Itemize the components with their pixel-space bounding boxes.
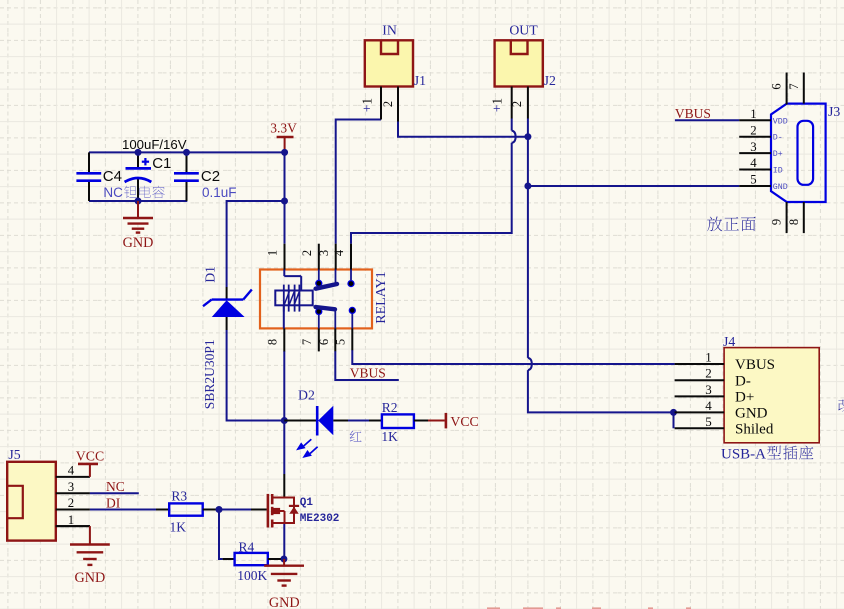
- svg-text:3: 3: [705, 382, 712, 397]
- value 100K of R4: [237, 568, 267, 583]
- connector J5: [7, 462, 56, 541]
- pin name GND of J3: [773, 183, 788, 192]
- connector J1: [365, 40, 413, 86]
- pin label 4 of J3: [750, 156, 757, 170]
- wire GND net to J4: [528, 370, 674, 412]
- designator Q1: [300, 497, 314, 509]
- svg-text:1: 1: [750, 107, 756, 121]
- svg-text:3: 3: [68, 480, 74, 494]
- pin 7 of relay: [318, 328, 320, 351]
- pin label 2 of J5: [68, 496, 74, 510]
- svg-text:D2: D2: [298, 387, 315, 402]
- svg-text:J2: J2: [544, 73, 556, 88]
- pin 8 of relay: [283, 328, 285, 351]
- junction D1 top on 3.3V net: [281, 198, 288, 205]
- pin 3 of J3: [739, 152, 771, 154]
- designator R2: [382, 400, 398, 415]
- junction GND J3 branch: [524, 183, 531, 190]
- wire 3.3V net vertical to relay pin1: [284, 151, 286, 243]
- svg-text:NC: NC: [103, 185, 123, 200]
- svg-text:SBR2U30P1: SBR2U30P1: [202, 339, 217, 409]
- svg-text:R3: R3: [171, 488, 187, 503]
- svg-text:6: 6: [317, 339, 331, 345]
- pin label 4 of relay: [332, 249, 346, 256]
- relay RELAY1 box: [260, 270, 372, 329]
- svg-text:1: 1: [68, 513, 74, 527]
- relay contact upper: [316, 270, 354, 289]
- designator R3: [171, 488, 187, 503]
- svg-text:3.3V: 3.3V: [270, 121, 297, 136]
- pin label 5 of J4: [705, 414, 712, 429]
- power symbol 3.3V: [277, 137, 294, 152]
- pin 4 of J3: [739, 169, 771, 171]
- svg-text:2: 2: [381, 101, 395, 107]
- svg-text:1: 1: [705, 350, 712, 365]
- label C4: [103, 168, 122, 185]
- pin 5 of relay: [351, 328, 353, 350]
- svg-text:VDD: VDD: [773, 117, 788, 126]
- svg-text:4: 4: [750, 156, 757, 170]
- svg-text:ME2302: ME2302: [300, 513, 340, 525]
- pin label 5 of relay: [334, 339, 348, 345]
- junction R3-R4-gate: [216, 506, 223, 513]
- LED D2: [298, 406, 333, 457]
- wire DI to R3: [90, 509, 169, 511]
- junction R4 to source: [280, 556, 287, 563]
- connector J4: [724, 348, 819, 443]
- label OUT: [509, 23, 538, 38]
- net label VCC at J5: [76, 449, 104, 464]
- value 1K of R3: [170, 519, 187, 534]
- wire 3.3V top rail: [89, 151, 285, 153]
- pin 6 of relay: [334, 328, 336, 351]
- connector J2: [495, 40, 543, 86]
- junction 3.3V: [281, 149, 288, 156]
- svg-text:8: 8: [787, 219, 801, 225]
- wire D1 top to 3.3V net: [227, 200, 285, 202]
- pin 5 of J3: [739, 185, 771, 187]
- svg-text:8: 8: [266, 339, 280, 345]
- wire J1 pin2 to J2 pin2: [398, 122, 528, 137]
- pin 6 of J3: [786, 73, 788, 105]
- pin name D- of J3: [773, 134, 783, 143]
- relay contact lower: [316, 307, 356, 328]
- pin 1 of J4: [675, 363, 725, 365]
- pin label +1 of J2: [490, 98, 505, 112]
- pin 7 of J3: [803, 73, 805, 104]
- label 放正面: [707, 217, 755, 232]
- pin label 4 of J4: [705, 398, 712, 413]
- pin label 2 of J1: [381, 101, 395, 107]
- svg-text:C2: C2: [201, 168, 220, 185]
- pin 2 of J5: [56, 509, 90, 511]
- svg-text:ID: ID: [773, 167, 783, 176]
- svg-text:D+: D+: [735, 390, 754, 406]
- label 红: [350, 431, 362, 442]
- svg-text:4: 4: [332, 249, 346, 256]
- relay coil: [275, 270, 312, 329]
- wire R4 branch: [219, 510, 223, 560]
- svg-text:+1: +1: [359, 98, 374, 112]
- svg-text:Shiled: Shiled: [735, 422, 774, 438]
- svg-text:1K: 1K: [170, 519, 187, 534]
- capacitor C1 (polar): [125, 152, 152, 201]
- svg-text:6: 6: [770, 83, 784, 89]
- junction C1 bottom: [135, 198, 142, 205]
- pin label 3 of J5: [68, 480, 74, 494]
- designator J4: [723, 334, 735, 349]
- pin 4 of J4: [675, 411, 725, 413]
- pin label 3 of J4: [705, 382, 712, 397]
- pin 4 of relay: [350, 244, 352, 270]
- svg-text:0.1uF: 0.1uF: [202, 185, 237, 200]
- designator D2: [298, 387, 315, 402]
- label GND at J5: [75, 570, 106, 586]
- net label VBUS at J3: [675, 106, 711, 121]
- svg-text:GND: GND: [123, 235, 154, 251]
- label IN: [382, 23, 397, 38]
- svg-text:VBUS: VBUS: [675, 106, 711, 121]
- value SBR2U30P1: [202, 339, 217, 409]
- pin 2 of J2: [527, 87, 529, 119]
- label GND at Q1: [269, 595, 300, 609]
- designator D1: [203, 266, 218, 283]
- label GND at capacitors: [123, 235, 154, 251]
- value 1K of R2: [381, 429, 398, 444]
- label C2: [201, 168, 220, 185]
- wire J1 pin1 to relay pin3: [336, 120, 381, 244]
- svg-text:5: 5: [705, 414, 712, 429]
- wire R2 to VCC: [414, 420, 445, 422]
- wire J2 pin2 down segment1: [527, 119, 529, 358]
- value 0.1uF: [202, 185, 237, 200]
- svg-text:D1: D1: [203, 266, 218, 283]
- net label VBUS at relay pin6: [350, 365, 386, 380]
- pin label 1 of J3: [750, 107, 756, 121]
- connector J3 body: [771, 104, 826, 202]
- net label VCC at R2: [450, 414, 478, 429]
- pin name ID of J3: [773, 167, 783, 176]
- pin 2 of relay: [318, 244, 320, 270]
- pin label 9 of J3: [770, 219, 784, 225]
- pin 1 of J3: [739, 119, 771, 121]
- wire hop GND net over VBUS wire: [528, 358, 532, 370]
- wire J2 pin1 upper: [511, 119, 513, 131]
- pin 9 of J3: [786, 202, 788, 233]
- pin label 7 of J3: [787, 83, 801, 89]
- svg-text:VCC: VCC: [76, 449, 104, 464]
- svg-text:VCC: VCC: [450, 414, 478, 429]
- pin label 8 of relay: [266, 339, 280, 345]
- pin label 2 of relay: [300, 250, 314, 256]
- pin label 3 of J3: [750, 140, 756, 154]
- wire J4 GND to Shiled: [673, 412, 675, 428]
- wire GND to J3 pin5: [528, 185, 739, 187]
- diode D1: [203, 287, 252, 330]
- transistor Q1 ME2302: [268, 494, 299, 528]
- wire VBUS to J3 pin1: [675, 119, 739, 121]
- cut-off text marks bottom: [487, 607, 691, 609]
- pin name VDD of J3: [773, 117, 788, 126]
- wire relay pin5 to J4 pin1: [352, 350, 674, 364]
- pin label 2 of J2: [510, 101, 524, 107]
- pin 1 of J2: [511, 87, 513, 119]
- pin label 7 of relay: [300, 339, 314, 345]
- pin 4 of J5: [56, 476, 90, 478]
- svg-text:J3: J3: [828, 104, 840, 119]
- wire D2 anode: [284, 420, 317, 422]
- svg-text:2: 2: [705, 366, 712, 381]
- svg-text:2: 2: [510, 101, 524, 107]
- wire relay pin8 to D2 node: [283, 351, 285, 474]
- svg-text:D-: D-: [773, 134, 783, 143]
- resistor R3: [169, 503, 203, 515]
- pin 3 of J4: [675, 395, 725, 397]
- pin 2 of J4: [675, 379, 725, 381]
- svg-text:J5: J5: [8, 447, 20, 462]
- wire R4 to source: [268, 558, 284, 560]
- pin 1 of relay: [284, 244, 286, 270]
- svg-text:USB-A: USB-A: [721, 447, 766, 463]
- svg-text:5: 5: [750, 173, 756, 187]
- svg-text:J1: J1: [414, 73, 426, 88]
- junction J1pin2-J2pin2: [524, 133, 531, 140]
- wire to R4: [223, 558, 235, 560]
- pin label 6 of relay: [317, 339, 331, 345]
- pin label 1 of relay: [266, 250, 280, 256]
- pin label 6 of J3: [770, 83, 784, 89]
- wire capacitor bottom rail: [89, 200, 187, 202]
- resistor R2: [382, 414, 414, 428]
- label USB-A型插座: [721, 446, 813, 463]
- svg-text:GND: GND: [773, 183, 788, 192]
- pin name D+ of J3: [773, 150, 783, 159]
- pin 1 of J5: [56, 525, 90, 527]
- svg-text:+1: +1: [490, 98, 505, 112]
- svg-text:GND: GND: [269, 595, 300, 609]
- wire relay pin6 to VBUS label stub: [335, 351, 399, 380]
- wire R3 to Q1 gate: [203, 509, 267, 511]
- value 100uF/16V: [122, 137, 187, 152]
- ground at Q1: [264, 559, 304, 586]
- svg-text:100K: 100K: [237, 568, 267, 583]
- svg-text:C1: C1: [152, 155, 171, 172]
- pin label 3 of relay: [317, 250, 331, 256]
- svg-text:2: 2: [750, 123, 756, 137]
- net label DI: [106, 496, 121, 511]
- pin label 1 of J5: [68, 513, 74, 527]
- wire J2 pin1 to relay pin4: [351, 143, 512, 244]
- svg-text:VBUS: VBUS: [350, 365, 386, 380]
- value ME2302: [300, 513, 340, 525]
- svg-text:7: 7: [300, 339, 314, 345]
- pin 5 of J4: [675, 427, 725, 429]
- pin name D+ of J4: [735, 390, 754, 406]
- svg-text:7: 7: [787, 83, 801, 89]
- net label NC: [106, 479, 125, 494]
- svg-text:C4: C4: [103, 168, 122, 185]
- net label 3.3V: [270, 121, 297, 136]
- resistor R4: [235, 553, 268, 565]
- pin name GND of J4: [735, 406, 768, 422]
- value NC钽电容: [103, 185, 164, 200]
- svg-text:2: 2: [300, 250, 314, 256]
- designator R4: [239, 540, 255, 555]
- pin label 2 of J4: [705, 366, 712, 381]
- svg-text:J4: J4: [723, 334, 735, 349]
- junction C2 top: [183, 149, 190, 156]
- junction J4 GND: [670, 409, 677, 416]
- capacitor C4: [76, 152, 101, 201]
- pin 1 of J1: [380, 87, 382, 120]
- wire Q1 source to GND: [283, 523, 285, 560]
- designator J5: [8, 447, 20, 462]
- pin label 2 of J3: [750, 123, 756, 137]
- label 改 (clipped): [838, 398, 844, 411]
- wire D1 top: [226, 200, 228, 287]
- pin name D- of J4: [735, 373, 751, 389]
- svg-text:3: 3: [317, 250, 331, 256]
- svg-text:IN: IN: [382, 23, 397, 38]
- ground at capacitors: [123, 201, 153, 233]
- pin 3 of relay: [335, 244, 337, 270]
- svg-text:GND: GND: [75, 570, 106, 586]
- capacitor C2: [174, 152, 199, 201]
- pin 2 of J1: [397, 87, 399, 122]
- svg-text:D-: D-: [735, 373, 751, 389]
- designator J2: [544, 73, 556, 88]
- pin name VBUS of J4: [735, 357, 775, 373]
- svg-text:R4: R4: [239, 540, 255, 555]
- pin label 5 of J3: [750, 173, 756, 187]
- svg-text:Q1: Q1: [300, 497, 314, 509]
- wire D2 cathode to R2: [333, 420, 382, 422]
- svg-text:DI: DI: [106, 496, 121, 511]
- svg-text:D+: D+: [773, 150, 783, 159]
- svg-text:R2: R2: [382, 400, 398, 415]
- designator RELAY1: [374, 271, 389, 323]
- designator J1: [414, 73, 426, 88]
- svg-text:100uF/16V: 100uF/16V: [122, 137, 187, 152]
- svg-text:3: 3: [750, 140, 756, 154]
- power symbol VCC at R2: [445, 413, 448, 429]
- designator J3: [828, 104, 840, 119]
- svg-text:5: 5: [334, 339, 348, 345]
- wire Q1 drain: [283, 474, 285, 498]
- svg-text:9: 9: [770, 219, 784, 225]
- pin 2 of J3: [739, 136, 771, 138]
- wire D1 bottom to D2 node: [227, 330, 285, 421]
- pin 3 of J5: [56, 492, 90, 494]
- wire NC: [90, 492, 139, 494]
- pin label 4 of J5: [68, 464, 75, 478]
- svg-text:OUT: OUT: [509, 23, 538, 38]
- label C1: [152, 155, 171, 172]
- junction D2 node: [281, 417, 288, 424]
- svg-text:VBUS: VBUS: [735, 357, 775, 373]
- svg-text:NC: NC: [106, 479, 125, 494]
- pin label +1 of J1: [359, 98, 374, 112]
- pin 8 of J3: [803, 202, 805, 233]
- svg-text:1: 1: [266, 250, 280, 256]
- pin label 1 of J4: [705, 350, 712, 365]
- svg-text:2: 2: [68, 496, 74, 510]
- junction C1 top: [135, 149, 142, 156]
- power symbol VCC at J5: [78, 464, 98, 477]
- pin label 8 of J3: [787, 219, 801, 225]
- ground at J5: [56, 526, 110, 565]
- svg-text:RELAY1: RELAY1: [374, 271, 389, 323]
- pin name Shiled of J4: [735, 422, 774, 438]
- svg-text:4: 4: [68, 464, 75, 478]
- wire hop J2 pin1 over J1-J2 wire: [512, 131, 516, 143]
- svg-text:1K: 1K: [381, 429, 398, 444]
- svg-text:GND: GND: [735, 406, 768, 422]
- svg-text:4: 4: [705, 398, 712, 413]
